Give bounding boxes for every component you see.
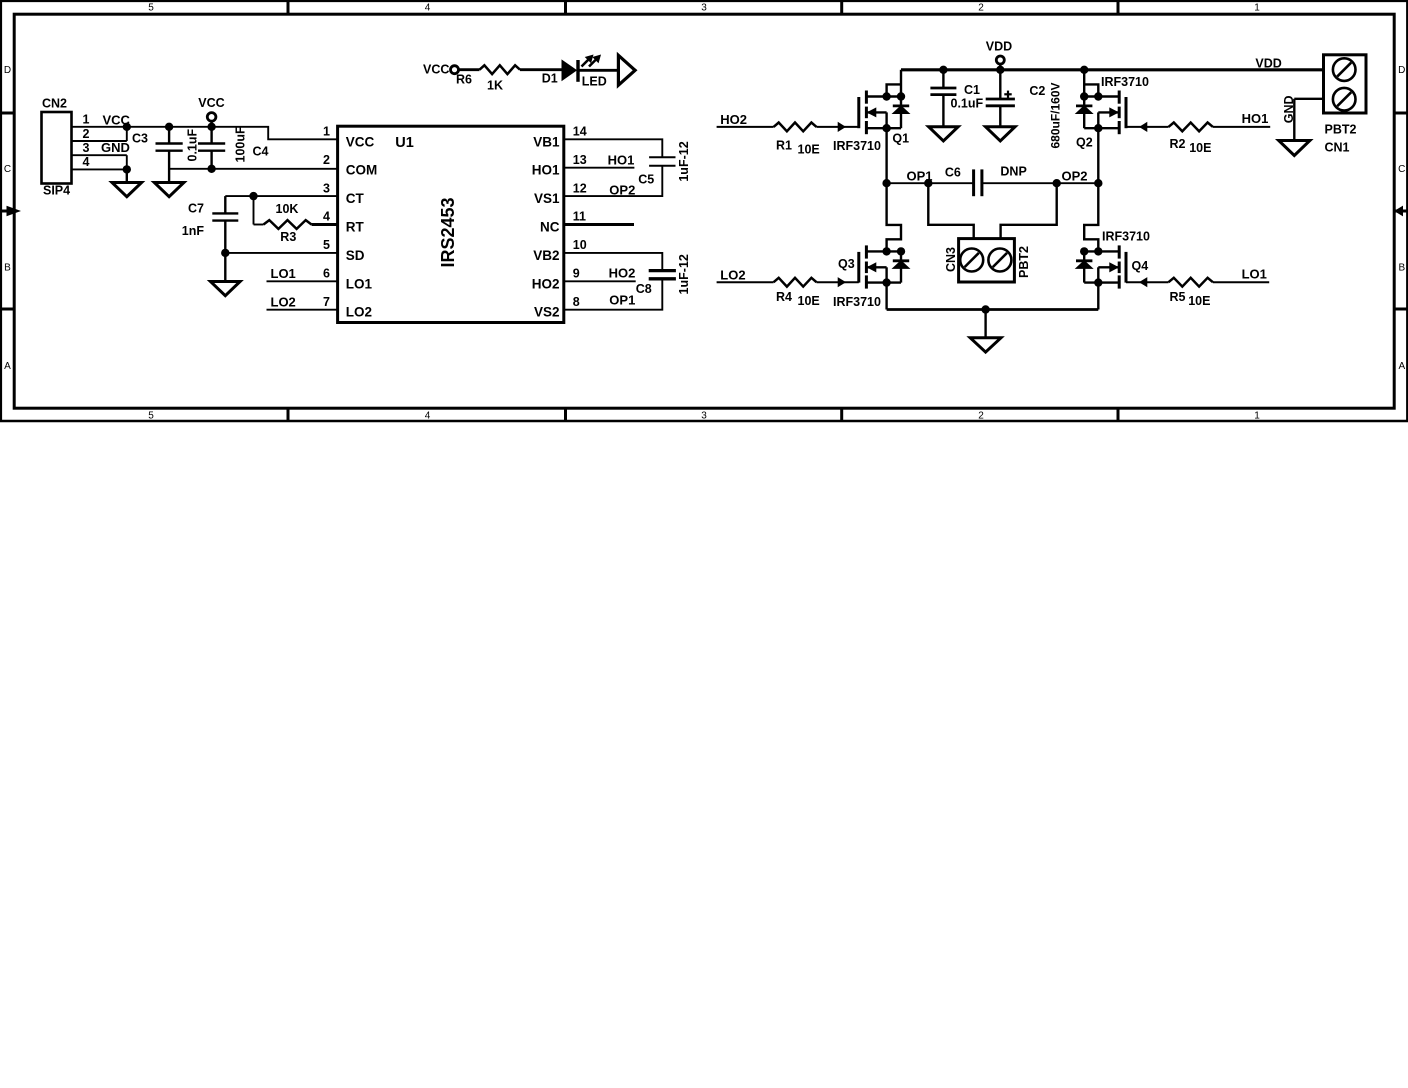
svg-text:LO1: LO1: [346, 276, 373, 291]
svg-text:HO2: HO2: [532, 276, 560, 291]
svg-text:C5: C5: [638, 172, 654, 186]
svg-text:7: 7: [323, 295, 330, 309]
svg-text:R4: R4: [776, 290, 792, 304]
svg-text:5: 5: [148, 411, 154, 422]
svg-text:1: 1: [1254, 3, 1260, 14]
svg-text:R5: R5: [1170, 290, 1186, 304]
svg-text:C: C: [4, 164, 11, 175]
svg-text:4: 4: [425, 411, 431, 422]
svg-text:4: 4: [83, 155, 90, 169]
svg-text:C3: C3: [132, 132, 148, 146]
svg-text:12: 12: [573, 181, 587, 195]
svg-text:VB2: VB2: [533, 248, 559, 263]
svg-text:2: 2: [323, 153, 330, 167]
svg-text:CT: CT: [346, 191, 365, 206]
svg-text:LO2: LO2: [720, 267, 745, 282]
svg-text:LO2: LO2: [346, 305, 372, 320]
svg-text:OP2: OP2: [609, 182, 635, 197]
svg-text:GND: GND: [101, 140, 130, 155]
svg-text:4: 4: [425, 3, 431, 14]
svg-text:1: 1: [323, 125, 330, 139]
svg-text:A: A: [1398, 361, 1405, 372]
svg-text:0.1uF: 0.1uF: [951, 97, 984, 111]
svg-text:VCC: VCC: [346, 134, 375, 149]
svg-text:C2: C2: [1029, 84, 1045, 98]
svg-text:HO1: HO1: [608, 153, 635, 168]
svg-text:B: B: [4, 263, 11, 274]
svg-text:10E: 10E: [1189, 141, 1211, 155]
svg-text:IRF3710: IRF3710: [833, 139, 881, 153]
svg-text:VCC: VCC: [198, 96, 224, 110]
svg-text:3: 3: [323, 181, 330, 195]
svg-text:CN1: CN1: [1325, 141, 1350, 155]
svg-text:IRF3710: IRF3710: [1101, 75, 1149, 89]
svg-text:LED: LED: [582, 74, 607, 88]
svg-text:10: 10: [573, 238, 587, 252]
svg-text:COM: COM: [346, 163, 378, 178]
svg-text:VDD: VDD: [1255, 56, 1281, 70]
svg-text:R2: R2: [1170, 137, 1186, 151]
svg-text:1: 1: [83, 113, 90, 127]
svg-text:D1: D1: [542, 71, 558, 85]
svg-text:5: 5: [323, 238, 330, 252]
svg-text:GND: GND: [1282, 95, 1296, 123]
svg-text:C7: C7: [188, 202, 204, 216]
svg-text:R3: R3: [280, 230, 296, 244]
svg-text:11: 11: [573, 210, 586, 224]
svg-text:1uF-12: 1uF-12: [677, 254, 691, 294]
svg-text:3: 3: [701, 411, 707, 422]
svg-text:NC: NC: [540, 220, 560, 235]
svg-text:IRF3710: IRF3710: [833, 295, 881, 309]
svg-text:R1: R1: [776, 138, 792, 152]
svg-text:8: 8: [573, 295, 580, 309]
svg-text:2: 2: [978, 3, 984, 14]
svg-text:C: C: [1398, 164, 1405, 175]
svg-text:2: 2: [978, 411, 984, 422]
svg-text:Q1: Q1: [892, 132, 909, 146]
svg-text:100uF: 100uF: [234, 126, 248, 162]
svg-text:IRS2453: IRS2453: [438, 197, 458, 267]
svg-text:VCC: VCC: [103, 112, 131, 127]
svg-text:LO2: LO2: [271, 295, 296, 310]
svg-text:D: D: [1398, 65, 1405, 76]
svg-text:HO1: HO1: [1242, 111, 1269, 126]
svg-text:VS1: VS1: [534, 191, 560, 206]
svg-text:PBT2: PBT2: [1325, 123, 1357, 137]
svg-text:0.1uF: 0.1uF: [186, 128, 200, 161]
svg-text:10E: 10E: [1188, 294, 1210, 308]
svg-text:5: 5: [148, 3, 154, 14]
svg-text:HO2: HO2: [609, 266, 636, 281]
svg-text:Q4: Q4: [1132, 259, 1149, 273]
svg-text:C4: C4: [253, 145, 269, 159]
svg-text:10K: 10K: [276, 202, 299, 216]
svg-text:1uF-12: 1uF-12: [677, 141, 691, 181]
svg-text:LO1: LO1: [1242, 266, 1267, 281]
svg-text:1: 1: [1254, 411, 1260, 422]
svg-text:R6: R6: [456, 73, 472, 87]
svg-text:VB1: VB1: [533, 134, 560, 149]
svg-text:C1: C1: [964, 83, 980, 97]
svg-text:VCC: VCC: [423, 62, 449, 76]
svg-text:10E: 10E: [798, 294, 820, 308]
svg-text:6: 6: [323, 267, 330, 281]
svg-text:680uF/160V: 680uF/160V: [1049, 82, 1063, 148]
svg-text:3: 3: [83, 141, 90, 155]
svg-text:1nF: 1nF: [182, 224, 205, 238]
svg-text:C6: C6: [945, 166, 961, 180]
svg-text:4: 4: [323, 210, 330, 224]
svg-text:C8: C8: [636, 282, 652, 296]
svg-text:14: 14: [573, 125, 587, 139]
svg-text:IRF3710: IRF3710: [1102, 230, 1150, 244]
svg-text:A: A: [4, 361, 11, 372]
svg-text:CN3: CN3: [944, 247, 958, 272]
svg-text:Q3: Q3: [838, 257, 855, 271]
svg-text:OP1: OP1: [907, 169, 933, 184]
svg-text:OP1: OP1: [609, 293, 635, 308]
svg-text:RT: RT: [346, 220, 365, 235]
svg-text:U1: U1: [395, 135, 414, 151]
svg-text:VS2: VS2: [534, 305, 560, 320]
svg-text:DNP: DNP: [1000, 164, 1026, 178]
svg-text:HO1: HO1: [532, 163, 560, 178]
svg-text:1K: 1K: [487, 78, 503, 92]
svg-text:LO1: LO1: [271, 266, 296, 281]
svg-text:D: D: [4, 65, 11, 76]
svg-text:OP2: OP2: [1062, 169, 1088, 184]
svg-text:PBT2: PBT2: [1017, 246, 1031, 278]
svg-text:VDD: VDD: [986, 39, 1012, 53]
svg-text:B: B: [1398, 263, 1405, 274]
svg-text:CN2: CN2: [42, 97, 67, 111]
svg-text:Q2: Q2: [1076, 135, 1093, 149]
svg-text:SD: SD: [346, 248, 365, 263]
svg-text:13: 13: [573, 153, 587, 167]
svg-text:HO2: HO2: [720, 112, 747, 127]
svg-text:3: 3: [701, 3, 707, 14]
svg-text:9: 9: [573, 267, 580, 281]
svg-text:SIP4: SIP4: [43, 184, 70, 198]
svg-text:2: 2: [83, 127, 90, 141]
svg-text:10E: 10E: [798, 143, 820, 157]
